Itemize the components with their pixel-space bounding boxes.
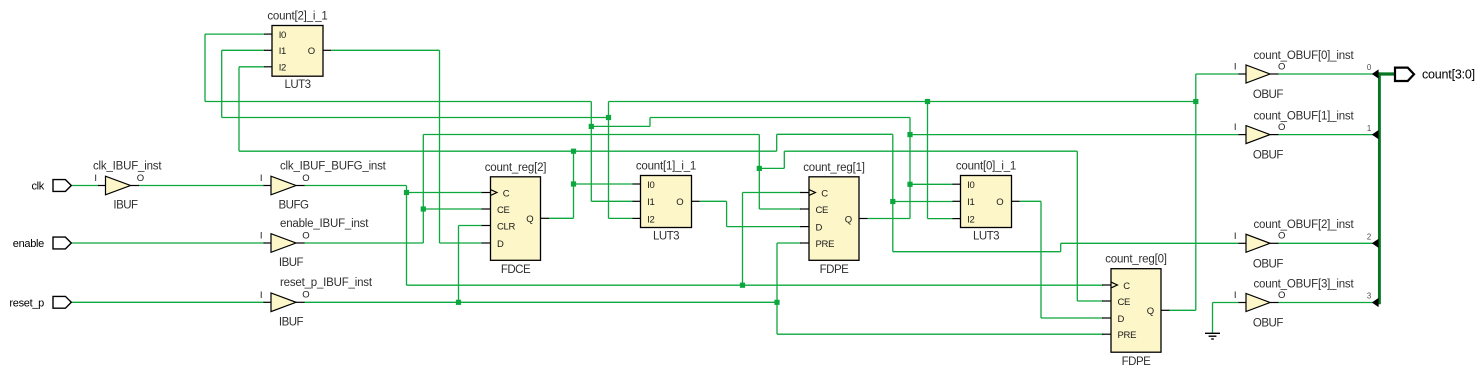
svg-text:count_OBUF[0]_inst: count_OBUF[0]_inst [1254, 50, 1355, 62]
wire reset_p drop to count_reg[0] PRE [776, 302, 778, 334]
ground symbol [1205, 332, 1220, 334]
svg-text:CE: CE [816, 205, 829, 216]
svg-text:D: D [497, 239, 504, 250]
junction Q1 x591/y126 [589, 124, 594, 129]
wire Q1 run y101 left [205, 101, 591, 103]
wire reset_p net: port to IBUF [71, 301, 264, 303]
LUT3 count[2]_i_1 [272, 26, 323, 77]
wire Q0 left riser to count[2]_i_1 I1 [221, 50, 223, 117]
svg-text:count[0]_i_1: count[0]_i_1 [956, 161, 1016, 173]
svg-text:LUT3: LUT3 [653, 230, 679, 242]
bus to output port [1378, 72, 1395, 75]
svg-text:I: I [1234, 62, 1237, 73]
LUT3 count[1]_i_1 [641, 176, 692, 228]
svg-text:Q: Q [845, 214, 852, 225]
wire Q1 net: count_reg[1].Q out [868, 218, 911, 220]
svg-text:O: O [1278, 61, 1285, 72]
wire enable net: IBUF out to riser [304, 242, 423, 244]
svg-text:clk_IBUF_BUFG_inst: clk_IBUF_BUFG_inst [280, 160, 387, 172]
svg-text:I: I [94, 173, 97, 184]
svg-text:FDPE: FDPE [820, 264, 850, 276]
svg-text:0: 0 [1367, 63, 1372, 72]
svg-text:enable_IBUF_inst: enable_IBUF_inst [280, 218, 369, 230]
wire clk net: BUFG out, right then down at x406 [304, 185, 407, 187]
svg-text:O: O [1278, 122, 1285, 133]
wire Q1 vertical x591 [590, 102, 592, 202]
svg-text:I0: I0 [967, 180, 974, 191]
svg-text:count_OBUF[1]_inst: count_OBUF[1]_inst [1254, 110, 1355, 122]
svg-text:1: 1 [1367, 124, 1371, 133]
svg-text:Q: Q [1147, 306, 1154, 317]
junction Q0 riser/y101 [1193, 99, 1198, 104]
svg-text:3: 3 [1367, 292, 1371, 301]
junction enable x759/y168 [757, 166, 762, 171]
svg-text:O: O [676, 197, 683, 208]
wire Q2 branch to count[0]_i_1 I1 [893, 201, 953, 203]
svg-text:PRE: PRE [1118, 330, 1137, 341]
svg-text:I1: I1 [279, 46, 286, 57]
svg-text:reset_p_IBUF_inst: reset_p_IBUF_inst [280, 277, 373, 289]
wire enable net: port to IBUF [71, 242, 264, 244]
wire D1 net: count[1]_i_1 O to count_reg[1] D [700, 200, 727, 202]
svg-text:OBUF: OBUF [1253, 150, 1283, 162]
wire Q2 run to OBUF2 with step [893, 251, 1061, 253]
buffer count_OBUF[2]_inst OBUF [1246, 234, 1270, 252]
svg-text:count[2]_i_1: count[2]_i_1 [267, 11, 327, 23]
wire reset_p riser to count_reg[1] PRE [776, 243, 778, 302]
wire Q1 branch to count[1]_i_1 I1 [591, 200, 633, 202]
wire Q0 drop x608 to count[1]_i_1 I2 [608, 102, 610, 219]
svg-text:clk: clk [31, 181, 44, 193]
svg-text:OBUF: OBUF [1253, 318, 1283, 330]
wire Q2 net: count_reg[2].Q out [549, 217, 574, 219]
wire Q1 run y117 leftwards [650, 117, 910, 119]
svg-text:I: I [260, 231, 263, 242]
svg-text:C: C [821, 188, 828, 199]
svg-text:reset_p: reset_p [9, 297, 44, 309]
wire Q0 riser x1196 [1195, 74, 1197, 310]
svg-text:I1: I1 [647, 197, 654, 208]
svg-text:I1: I1 [967, 197, 974, 208]
junction Q1/count[0]_i_1.I0 [907, 182, 912, 187]
svg-text:enable: enable [13, 238, 44, 250]
svg-text:count_reg[1]: count_reg[1] [803, 162, 865, 174]
wire Q2 branch to count[1]_i_1 I0 [574, 183, 634, 185]
wire Q1 branch to count[0]_i_1 I0 [910, 183, 953, 185]
svg-text:I: I [260, 290, 263, 301]
junction clk/count_reg[1].C riser [740, 283, 745, 288]
junction Q2 riser/y151 [571, 149, 576, 154]
wire enable branch to count_reg[2] CE [423, 208, 482, 210]
svg-text:count[3:0]: count[3:0] [1422, 67, 1475, 81]
buffer count_OBUF[0]_inst OBUF [1246, 65, 1270, 83]
wire clk branch to count_reg[2] C pin [407, 192, 483, 194]
wire Q2 run y151 to jog [239, 150, 777, 152]
port count[3:0] [1395, 68, 1414, 81]
wire OBUF0 output to bus [1279, 73, 1378, 75]
flip-flop count_reg[2] FDCE [491, 177, 541, 260]
svg-text:I0: I0 [647, 180, 654, 191]
wire enable drop to count_reg[0] CE [1076, 151, 1078, 301]
svg-text:OBUF: OBUF [1253, 89, 1283, 101]
svg-text:I: I [260, 173, 263, 184]
svg-text:BUFG: BUFG [279, 200, 310, 212]
buffer enable_IBUF_inst IBUF [271, 234, 296, 253]
svg-text:count_OBUF[3]_inst: count_OBUF[3]_inst [1254, 278, 1355, 290]
svg-text:C: C [1123, 281, 1130, 292]
bus entry arrow bit 2 [1372, 239, 1379, 248]
svg-text:O: O [302, 290, 309, 301]
junction Q0 x608/y117 [606, 115, 611, 120]
port clk [53, 180, 71, 192]
svg-text:D: D [816, 223, 823, 234]
wire reset_p net: IBUF out long run [304, 301, 777, 303]
bus entry arrow bit 3 [1372, 298, 1379, 307]
wire clk net: clk port to IBUF [71, 185, 98, 187]
wire D0 net: count[0]_i_1 O to count_reg[0] D [1020, 200, 1041, 202]
svg-text:I: I [1234, 290, 1237, 301]
svg-text:count_reg[0]: count_reg[0] [1105, 254, 1167, 266]
wire Q1 step down to y126 [649, 118, 651, 127]
svg-text:IBUF: IBUF [113, 200, 138, 212]
wire enable drop to count_reg[1] CE [758, 135, 760, 210]
wire OBUF2 output to bus [1279, 242, 1378, 244]
svg-text:count_reg[2]: count_reg[2] [485, 162, 547, 174]
svg-text:O: O [302, 173, 309, 184]
wire Q2 left riser to count[2]_i_1 I2 [238, 67, 240, 151]
svg-text:O: O [137, 173, 144, 184]
flip-flop count_reg[1] FDPE [809, 177, 859, 260]
wire GND net to OBUF3 [1212, 303, 1214, 333]
bus entry arrow bit 1 [1372, 130, 1379, 139]
junction Q0/count[0]_i_1.I2 [925, 99, 930, 104]
svg-text:count_OBUF[2]_inst: count_OBUF[2]_inst [1254, 219, 1355, 231]
wire Q0 to OBUF0 [1196, 73, 1239, 75]
wire clk long horizontal to count_reg[0] C [407, 284, 1104, 286]
buffer count_OBUF[1]_inst OBUF [1246, 126, 1270, 144]
svg-text:count[1]_i_1: count[1]_i_1 [636, 161, 696, 173]
junction Q2/count[1]_i_1.I0 [571, 181, 576, 186]
svg-text:O: O [308, 46, 315, 57]
svg-text:IBUF: IBUF [279, 257, 304, 269]
wire Q0 net: count_reg[0].Q out [1170, 309, 1196, 311]
svg-text:CE: CE [497, 205, 510, 216]
svg-text:D: D [1118, 314, 1125, 325]
junction enable/count_reg[2].CE [421, 206, 426, 211]
svg-text:clk_IBUF_inst: clk_IBUF_inst [93, 160, 162, 172]
port reset_p [53, 296, 71, 308]
wire Q0 run y117 left [222, 117, 609, 119]
junction Q1/OBUF1 feed [907, 132, 912, 137]
svg-text:Q: Q [526, 214, 533, 225]
buffer clk_IBUF_BUFG_inst BUFG [271, 176, 296, 195]
svg-text:I2: I2 [647, 214, 654, 225]
wire Q1 riser x910 [909, 118, 911, 219]
wire OBUF1 output to bus [1279, 134, 1378, 136]
wire clk riser to count_reg[1] C [742, 193, 744, 286]
bus entry arrow bit 0 [1372, 69, 1379, 78]
svg-text:OBUF: OBUF [1253, 258, 1283, 270]
wire OBUF3 output to bus [1279, 302, 1378, 304]
svg-text:C: C [503, 188, 510, 199]
svg-text:LUT3: LUT3 [973, 230, 999, 242]
svg-text:CLR: CLR [497, 221, 516, 232]
svg-text:LUT3: LUT3 [284, 79, 310, 91]
wire Q1 branch to OBUF1 [910, 134, 1239, 136]
wire Q2 jog up to y134 [776, 134, 778, 151]
wire reset_p riser to count_reg[2] CLR [458, 226, 460, 303]
svg-text:O: O [302, 230, 309, 241]
svg-text:I2: I2 [279, 63, 286, 74]
LUT3 count[0]_i_1 [961, 176, 1012, 228]
svg-text:O: O [1278, 290, 1285, 301]
svg-text:FDCE: FDCE [501, 264, 531, 276]
wire Q2 riser [573, 151, 575, 218]
svg-text:PRE: PRE [816, 239, 835, 250]
svg-text:I2: I2 [967, 215, 974, 226]
buffer reset_p_IBUF_inst IBUF [271, 293, 296, 312]
bus count_OBUF[3:0] vertical [1378, 72, 1381, 304]
svg-text:O: O [1278, 231, 1285, 242]
junction reset/PRE risers [774, 300, 779, 305]
svg-text:IBUF: IBUF [279, 316, 304, 328]
wire Q1 left riser to count[2]_i_1 I0 [204, 34, 206, 101]
flip-flop count_reg[0] FDPE [1111, 269, 1161, 353]
svg-text:I0: I0 [279, 30, 286, 41]
wire enable jog to y151 run [759, 167, 784, 169]
wire enable horizontal run y134 [423, 134, 759, 136]
junction clk/count_reg[2].C [404, 190, 409, 195]
svg-text:CE: CE [1118, 297, 1131, 308]
wire Q0 run y101 [609, 101, 1196, 103]
wire Q0 drop x927 to count[0]_i_1 I2 [927, 102, 929, 219]
junction reset/CLR riser [456, 300, 461, 305]
wire D2 net: count[2]_i_1 O to count_reg[2] D [332, 49, 440, 51]
buffer count_OBUF[3]_inst OBUF [1246, 294, 1270, 312]
svg-text:I: I [1234, 231, 1237, 242]
svg-text:2: 2 [1367, 233, 1371, 242]
wire Q2 drop at x893 [892, 134, 894, 251]
wire clk net: IBUF out to BUFG in [138, 185, 265, 187]
svg-text:FDPE: FDPE [1122, 356, 1152, 368]
port enable [53, 237, 71, 249]
buffer clk_IBUF_inst IBUF [106, 176, 131, 195]
svg-text:O: O [996, 197, 1003, 208]
svg-text:I: I [1234, 122, 1237, 133]
junction Q2/count[0]_i_1.I1 [890, 199, 895, 204]
